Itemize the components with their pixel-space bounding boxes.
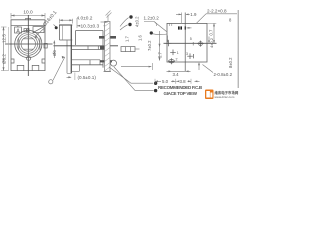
right pin hat (32, 65, 39, 70)
front view top nub (26, 18, 31, 19)
shaft dia rotated dim (53, 41, 55, 59)
svg-text:2-0.8±0.2: 2-0.8±0.2 (214, 72, 233, 77)
svg-text:4±0.2: 4±0.2 (209, 37, 214, 48)
svg-text:1.6: 1.6 (138, 35, 143, 41)
leader into front circle (34, 28, 44, 37)
side view dim 4.0 ext lines (60, 19, 73, 24)
svg-text:Ø6.2: Ø6.2 (1, 54, 6, 64)
svg-text:3: 3 (186, 52, 188, 56)
svg-text:(0.5±0.1): (0.5±0.1) (78, 75, 97, 80)
outer circle (15, 30, 42, 57)
pin bottom (72, 60, 100, 65)
left edge arrow on box (167, 36, 169, 43)
svg-text:8±0.2: 8±0.2 (228, 57, 233, 68)
leader dot at shaft tip (54, 25, 56, 27)
side view dim 10.3 (77, 25, 108, 27)
svg-text:12.5: 12.5 (1, 34, 6, 43)
svg-text:3.4: 3.4 (173, 72, 180, 77)
inner circle (21, 37, 35, 51)
seating leader (53, 57, 65, 80)
svg-text:RECOMMENDED P.C.B: RECOMMENDED P.C.B (158, 85, 203, 90)
side view front lip (67, 40, 71, 73)
tolerance frame (121, 47, 135, 52)
svg-text:10.3±0.3: 10.3±0.3 (81, 23, 100, 29)
detail leader curves (120, 18, 129, 27)
front view vertical centerline (27, 15, 29, 76)
left pin hat (17, 65, 24, 70)
label 2-0.8 (198, 63, 200, 70)
svg-text:10.0: 10.0 (23, 10, 33, 16)
leader to box (154, 22, 167, 32)
svg-text:5.0: 5.0 (162, 79, 169, 84)
pcb layout box (167, 23, 207, 62)
datum A box (15, 27, 22, 33)
detail pin dot B (128, 23, 131, 26)
bottom dim 3.4 (167, 70, 191, 72)
left notch (11, 59, 14, 63)
side view base step (71, 65, 79, 72)
right border line (237, 10, 239, 88)
front left dim line (3, 27, 5, 71)
side flat left (18, 38, 20, 50)
svg-text:1.2±0.2: 1.2±0.2 (144, 15, 160, 20)
svg-text:7±0.2: 7±0.2 (147, 40, 152, 51)
middle circle (17, 33, 40, 56)
pin middle (72, 46, 106, 50)
svg-text:4.0±0.2: 4.0±0.2 (77, 16, 93, 22)
svg-text:1.7: 1.7 (125, 36, 130, 42)
pad circle behind pcb (111, 60, 117, 66)
detail pin dot A (129, 15, 132, 18)
bottom pad dot E (154, 89, 157, 92)
front view dim 10.0 line with arrows (11, 15, 45, 17)
svg-text:4±0.2: 4±0.2 (135, 16, 140, 27)
svg-text:Ø16±0.1: Ø16±0.1 (42, 10, 59, 28)
svg-text:www.dzsc.com: www.dzsc.com (215, 95, 235, 99)
hole H1 cross (166, 40, 172, 46)
aux dim line (121, 66, 151, 68)
svg-text:GIACE TOP VIEW: GIACE TOP VIEW (164, 91, 198, 96)
top small rects near center (24, 29, 26, 32)
shaft flat chord top (23, 38, 33, 40)
hole H2 cross with circle (198, 41, 204, 47)
third circle (19, 35, 38, 54)
right edge small box on centerline (44, 43, 47, 48)
pcb bottom edge (104, 71, 112, 73)
svg-text:Ø6: Ø6 (52, 50, 57, 56)
right vertical dim (207, 22, 216, 24)
svg-text:3.8: 3.8 (180, 79, 187, 84)
leaders to bottom pads (109, 67, 153, 83)
small bottom circle (27, 56, 31, 60)
dim 1.9 ext lines (181, 13, 183, 24)
front view body outline (11, 20, 45, 71)
centerline ticks (192, 42, 194, 46)
bottom dim 5.0 (155, 80, 175, 82)
pcb cross-section (105, 22, 111, 72)
watermark icon (205, 90, 214, 100)
pin top dark (99, 36, 116, 39)
front view horizontal centerline (5, 43, 53, 45)
svg-text:2: 2 (176, 57, 178, 61)
hole H3 cross (170, 50, 176, 56)
side view centerline (54, 45, 119, 47)
svg-text:0.7: 0.7 (208, 29, 213, 35)
front view dim 10.0 extension lines (11, 13, 45, 19)
pcb layout horizontal centerline (164, 42, 217, 44)
bottom dim 3.8 (176, 80, 191, 82)
front view top face line (11, 25, 45, 27)
side flat right (39, 38, 41, 50)
pcb layout vertical centerline (184, 13, 186, 72)
bottom pad dot D (154, 82, 157, 85)
slot black (178, 26, 180, 29)
vertical dim line with arrows (159, 31, 161, 61)
side view dim 4.0 line (60, 19, 73, 21)
side view shaft (60, 25, 73, 40)
shaft flat chord bottom (23, 48, 33, 50)
svg-text:8: 8 (229, 18, 232, 23)
slot arrow (187, 27, 192, 29)
svg-text:5: 5 (190, 37, 192, 41)
top right rect with diagonal (33, 27, 44, 33)
svg-text:1.9: 1.9 (190, 12, 197, 17)
shaft inner line (62, 25, 64, 40)
right notch (42, 59, 45, 63)
side view body (71, 31, 103, 68)
hole H4 cross with oval (169, 58, 175, 64)
svg-text:1: 1 (177, 51, 179, 55)
svg-text:5.7: 5.7 (158, 52, 163, 58)
svg-text:2-2.2×0.8: 2-2.2×0.8 (207, 9, 227, 14)
bottom extra tick (195, 80, 200, 82)
hole H5 cross (187, 53, 193, 59)
side view mounting plate (70, 26, 72, 74)
bottom gap dim (67, 76, 72, 78)
dot C (150, 31, 153, 34)
dim 1.9 arrows and text (176, 13, 181, 15)
